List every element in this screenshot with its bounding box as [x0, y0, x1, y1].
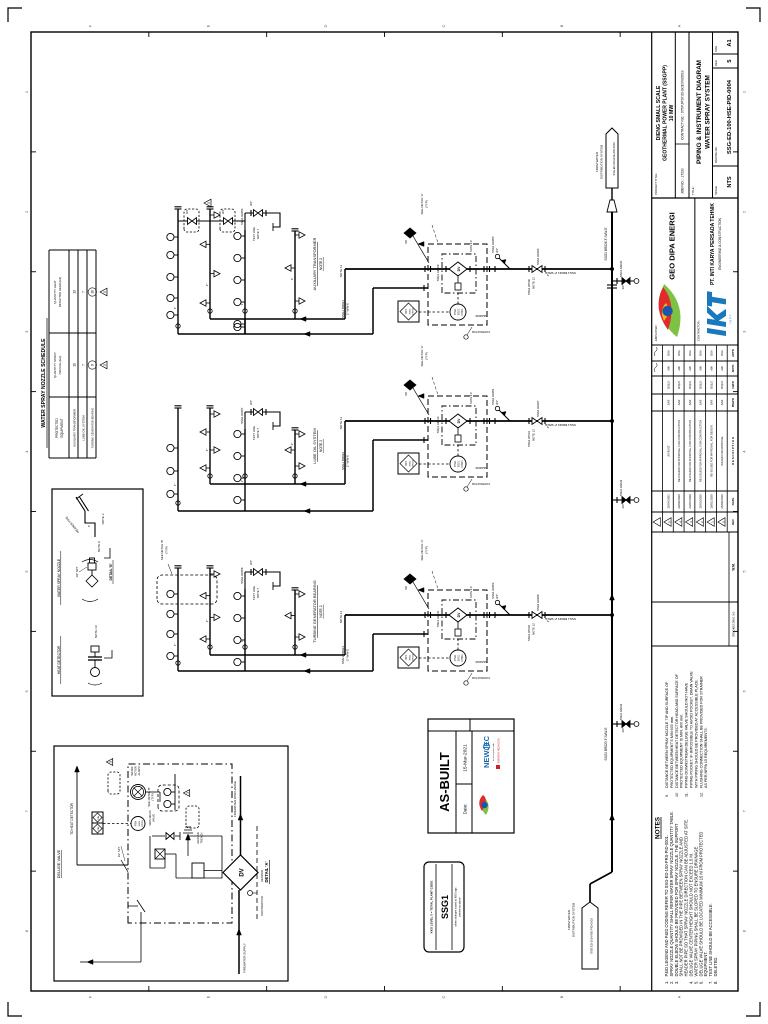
reference drawing columns: [652, 645, 738, 647]
svg-text:6.: 6.: [698, 981, 703, 984]
svg-text:CP031: CP031: [461, 654, 464, 662]
svg-text:2"-WW-E: 2"-WW-E: [346, 455, 350, 467]
svg-text:NOTE 12: NOTE 12: [532, 623, 536, 635]
svg-text:SSG1: SSG1: [410, 654, 412, 661]
svg-text:7: 7: [82, 291, 86, 293]
geo dipa energi logo: [660, 284, 680, 337]
svg-text:SSG1 BR020 3"-WW-E: SSG1 BR020 3"-WW-E: [604, 727, 608, 760]
svg-text:KKS LEVEL 0 = TOTAL PLANT CODE: KKS LEVEL 0 = TOTAL PLANT CODE: [430, 881, 434, 934]
svg-text:D E S C R I P T I O N: D E S C R I P T I O N: [731, 437, 735, 465]
svg-text:2": 2": [290, 614, 294, 617]
svg-text:CONTRACTOR: CONTRACTOR: [472, 676, 490, 680]
svg-text:PAL: PAL: [97, 815, 100, 820]
svg-text:3/4": 3/4": [621, 728, 625, 733]
lube oil system cluster test line: [244, 412, 246, 429]
svg-text:FIREWATER SUPPLY: FIREWATER SUPPLY: [243, 943, 247, 973]
lube oil system cluster skid boundary flanges: [424, 418, 426, 424]
spec break double tick: [607, 287, 617, 289]
svg-text:CP011: CP011: [461, 308, 464, 316]
svg-text:QUANTITY SPRAY: QUANTITY SPRAY: [53, 352, 57, 378]
lube oil system cluster deluge valve skid boundary: [428, 396, 487, 477]
svg-text:PROTECTED: PROTECTED: [55, 417, 59, 437]
svg-text:A: A: [677, 995, 682, 998]
svg-text:5: 5: [727, 59, 733, 62]
svg-text:SSG1 BR026 3"-WW-E: SSG1 BR026 3"-WW-E: [604, 227, 608, 260]
svg-text:SEE DETAIL 'A': SEE DETAIL 'A': [420, 539, 424, 560]
svg-text:SCALE: SCALE: [714, 186, 718, 195]
svg-text:RE-ISSUED FOR APPROVAL, FOR CO: RE-ISSUED FOR APPROVAL, FOR CONSTRUCTION: [688, 420, 692, 482]
svg-text:8: 8: [24, 929, 29, 932]
svg-text:DS|LS: DS|LS: [677, 381, 681, 389]
svg-text:8: 8: [91, 364, 95, 366]
vendor package dashed boundary (detail A): [128, 764, 232, 923]
svg-text:3/4": 3/4": [185, 209, 189, 214]
svg-text:PT. INTI KARYA PERSADA TEHNIK: PT. INTI KARYA PERSADA TEHNIK: [710, 203, 716, 285]
svg-text:SSG-ED-100-HSE-PID-0003: SSG-ED-100-HSE-PID-0003: [590, 918, 594, 954]
lube oil system cluster riser pipe: [345, 420, 612, 422]
svg-text:AS-BUILT: AS-BUILT: [666, 445, 670, 457]
svg-text:PAH: PAH: [405, 309, 408, 314]
turbine generator bearing cluster riser gate valve: [532, 612, 537, 619]
deluge valve DV diamond (detail A): [223, 855, 258, 890]
turbine generator bearing cluster skid boundary flanges: [424, 612, 426, 618]
svg-text:printed as above: printed as above: [458, 897, 462, 917]
employer cell: [694, 198, 696, 345]
svg-text:DISTANCE BETWEEN HEAT DETECTOR: DISTANCE BETWEEN HEAT DETECTOR HEAD AND …: [675, 673, 679, 788]
auxiliary transformer cluster heat detector solenoid diamond: [404, 228, 416, 238]
svg-text:(TYP): (TYP): [425, 546, 429, 554]
svg-text:when changes stated at KKS tag: when changes stated at KKS tags: [454, 887, 458, 927]
svg-text:SSG1: SSG1: [440, 895, 450, 919]
svg-text:PROTECTED EQUIPMENT'S MIN 600: PROTECTED EQUIPMENT'S MIN 600 mm.: [670, 716, 674, 788]
svg-text:VENDOR: VENDOR: [260, 870, 264, 882]
svg-text:(TYP): (TYP): [151, 793, 155, 800]
svg-text:VENDOR: VENDOR: [475, 314, 486, 318]
turbine generator bearing cluster riser pipe: [345, 614, 612, 616]
svg-text:12.: 12.: [699, 792, 703, 797]
reducer at right end: [607, 200, 617, 212]
svg-text:HEAT DETECTOR: HEAT DETECTOR: [57, 645, 61, 674]
svg-text:Date:: Date:: [463, 804, 468, 815]
svg-text:SAR: SAR: [699, 400, 703, 406]
svg-text:DSA: DSA: [699, 350, 703, 356]
lube oil system cluster spray header 1: [177, 408, 179, 511]
svg-text:SSG1 AA026: SSG1 AA026: [536, 248, 540, 265]
revision table: [652, 531, 738, 533]
svg-text:1: 1: [742, 90, 747, 93]
svg-text:I K P T: I K P T: [729, 314, 733, 323]
turbine generator bearing cluster header end elbows: [208, 645, 212, 649]
lube oil system cluster nozzles header 3: [234, 496, 245, 503]
svg-text:SSG1 AT000: SSG1 AT000: [527, 279, 531, 296]
lube oil system cluster strainer: [494, 418, 496, 424]
svg-text:5: 5: [103, 291, 107, 293]
svg-text:D: D: [323, 995, 328, 998]
svg-text:A1: A1: [727, 39, 733, 46]
water motor alarm: [131, 785, 146, 800]
svg-text:SAR: SAR: [720, 400, 724, 406]
extra nozzle header3 extension c1: [244, 319, 246, 334]
auxiliary transformer cluster heat detectors header 4: [295, 298, 305, 304]
svg-text:16: 16: [91, 290, 95, 294]
svg-text:E: E: [205, 24, 210, 27]
svg-text:7: 7: [24, 809, 29, 812]
corner trim marks: [8, 1002, 22, 1016]
svg-text:DV: DV: [457, 266, 461, 271]
auxiliary transformer cluster alarm square: [398, 301, 419, 322]
lube oil system cluster heat detectors header 4: [295, 463, 305, 469]
svg-text:6: 6: [742, 689, 747, 692]
auxiliary transformer cluster strainer: [494, 266, 496, 272]
svg-text:DSA: DSA: [709, 350, 713, 356]
svg-text:NOTE 7: NOTE 7: [256, 229, 260, 240]
svg-text:8.: 8.: [713, 981, 718, 984]
svg-text:3: 3: [186, 792, 190, 794]
svg-text:SSG1 AA034: SSG1 AA034: [619, 703, 623, 720]
svg-text:NOTE 4,6: NOTE 4,6: [469, 240, 473, 252]
svg-text:25/09/2019: 25/09/2019: [720, 494, 724, 509]
svg-text:SSG1 AA027: SSG1 AA027: [536, 400, 540, 417]
svg-text:SD: SD: [404, 392, 408, 396]
title strip top border: [651, 32, 653, 991]
svg-text:AW: AW: [666, 366, 670, 371]
svg-text:2"-WW-E: 2"-WW-E: [346, 303, 350, 315]
auxiliary transformer cluster pilot trim: [457, 276, 459, 283]
svg-text:2": 2": [205, 284, 209, 287]
svg-text:SSG1 BR022: SSG1 BR022: [341, 452, 345, 470]
nozzle pair see detail B (inside detail A): [158, 785, 179, 811]
svg-text:AW: AW: [709, 366, 713, 371]
svg-text:3/4": 3/4": [495, 248, 499, 253]
svg-text:2: 2: [700, 521, 704, 523]
svg-text:2": 2": [290, 278, 294, 281]
svg-text:FLUSHING CONNECTION SHALL BE P: FLUSHING CONNECTION SHALL BE PROVIDED FO…: [699, 676, 703, 788]
revision cloud + triangle (detail A) 1: [186, 806, 199, 828]
svg-text:DELETED.: DELETED.: [713, 956, 718, 976]
turbine generator bearing cluster pressure switch: [450, 650, 466, 666]
svg-text:GEOTHERMAL POWER PLANT (SSGPP): GEOTHERMAL POWER PLANT (SSGPP): [663, 65, 669, 161]
svg-text:29/09/2020: 29/09/2020: [677, 494, 681, 509]
svg-text:2": 2": [205, 449, 209, 452]
lube oil system cluster pilot trim: [457, 428, 459, 435]
svg-text:1: 1: [24, 90, 29, 93]
svg-text:15/04/2021: 15/04/2021: [666, 494, 670, 509]
svg-text:B: B: [559, 995, 564, 998]
svg-text:PSH: PSH: [134, 821, 138, 826]
svg-text:NOTE 11: NOTE 11: [339, 417, 343, 430]
svg-text:DISTRIBUTION SYSTEM: DISTRIBUTION SYSTEM: [600, 144, 604, 179]
turbine generator bearing cluster heat detectors header 2: [200, 636, 210, 642]
svg-text:DELUGE VALVE: DELUGE VALVE: [57, 849, 61, 878]
svg-text:3/4": 3/4": [621, 285, 625, 290]
svg-text:SSG1 BR021: SSG1 BR021: [341, 300, 345, 318]
svg-text:PSH: PSH: [453, 309, 457, 315]
svg-text:SSG1 BR023 2"-WW-E: SSG1 BR023 2"-WW-E: [545, 617, 576, 621]
svg-text:DETAIL 'A': DETAIL 'A': [264, 862, 269, 883]
svg-text:C: C: [441, 995, 446, 998]
svg-text:1": 1": [240, 303, 244, 306]
svg-text:FROM WATER: FROM WATER: [567, 909, 571, 930]
svg-text:PIPING POCKET, IF IMPOSSIBLE T: PIPING POCKET, IF IMPOSSIBLE TO AVOID PO…: [690, 671, 694, 788]
svg-text:DV: DV: [457, 612, 461, 617]
svg-text:DV: DV: [240, 868, 246, 876]
svg-text:CP021: CP021: [461, 460, 464, 468]
turbine generator bearing cluster heat detector solenoid diamond: [404, 574, 416, 584]
turbine generator bearing cluster spray header 2: [209, 568, 211, 655]
lube oil system cluster spray header 4: [294, 430, 296, 484]
svg-text:QUANTITY HEAT: QUANTITY HEAT: [53, 280, 57, 304]
svg-text:SIZE: SIZE: [714, 46, 718, 52]
svg-text:4: 4: [678, 521, 682, 523]
turbine generator bearing cluster spray header 3: [244, 589, 246, 671]
svg-text:NOTE 11: NOTE 11: [339, 611, 343, 624]
auxiliary transformer cluster collector risers: [210, 318, 345, 320]
svg-text:DSA: DSA: [720, 350, 724, 356]
svg-text:REV.: REV.: [714, 60, 718, 66]
svg-text:APP'D: APP'D: [732, 365, 735, 373]
lube oil system cluster nozzles header 1: [167, 490, 178, 497]
svg-text:CONTRACTOR: CONTRACTOR: [472, 330, 490, 334]
lube oil system cluster deluge valve: [449, 414, 467, 428]
svg-text:NOZZLE (EA): NOZZLE (EA): [58, 356, 62, 375]
svg-text:AUXILIARY TRANSFORMER: AUXILIARY TRANSFORMER: [73, 409, 77, 447]
svg-text:F: F: [87, 995, 92, 998]
svg-text:0: 0: [721, 521, 725, 523]
svg-text:DISTRIBUTION SYSTEM: DISTRIBUTION SYSTEM: [572, 902, 576, 937]
svg-text:NOTE 7: NOTE 7: [256, 428, 260, 439]
svg-text:CONTRACT NO. : 075/PJ/PST.00-: CONTRACT NO. : 075/PJ/PST.00-GDE/VIII/20…: [681, 70, 685, 140]
svg-text:AW: AW: [677, 366, 681, 371]
svg-text:in association with: in association with: [492, 742, 495, 761]
svg-text:WATER SPRAY NOZZLE SCHEDULE: WATER SPRAY NOZZLE SCHEDULE: [41, 338, 47, 428]
lube oil system cluster header end elbows: [208, 474, 212, 478]
svg-text:PROTECTED EQUIPMENT IS MIN. 80: PROTECTED EQUIPMENT IS MIN. 800 mm.: [680, 714, 684, 788]
svg-text:AS-BUILT: AS-BUILT: [437, 752, 452, 812]
svg-text:6: 6: [24, 689, 29, 692]
svg-text:SSG-ED-100-HSE-PID-0004: SSG-ED-100-HSE-PID-0004: [727, 79, 733, 154]
job and contract row: [675, 143, 689, 145]
svg-text:SAR: SAR: [677, 400, 681, 406]
svg-text:SAR: SAR: [688, 400, 692, 406]
svg-text:MAIN DRAIN: MAIN DRAIN: [148, 810, 152, 825]
typical detail box: [52, 489, 143, 696]
lube oil system cluster spray header 2: [209, 408, 211, 484]
alarm annunciator squares: [92, 823, 103, 834]
svg-text:NTS: NTS: [727, 176, 733, 187]
svg-text:CP031: CP031: [413, 653, 415, 660]
auxiliary transformer cluster header end elbows: [208, 309, 212, 313]
svg-text:1": 1": [173, 484, 177, 487]
svg-text:SSG1 UE009: SSG1 UE009: [436, 264, 440, 281]
svg-text:1/2" NPT: 1/2" NPT: [75, 566, 79, 578]
svg-text:5: 5: [667, 521, 671, 523]
svg-text:SSG1 AA028: SSG1 AA028: [536, 594, 540, 611]
svg-text:HEADER PIPE: HEADER PIPE: [64, 515, 80, 533]
svg-text:W.M.: W.M.: [732, 563, 736, 570]
svg-text:10/01/2020: 10/01/2020: [709, 494, 713, 509]
svg-text:SAR: SAR: [709, 400, 713, 406]
svg-text:3/4": 3/4": [249, 201, 253, 206]
svg-text:CP011: CP011: [413, 307, 415, 314]
auxiliary transformer cluster spray header 1: [177, 209, 179, 334]
svg-text:B: B: [559, 24, 564, 27]
auxiliary transformer cluster heat detectors header 2: [200, 300, 210, 306]
main water header pipe: [589, 884, 591, 902]
svg-text:SEE DETAIL 'A': SEE DETAIL 'A': [420, 193, 424, 214]
svg-text:RE-ISSUED FOR APPROVAL, FOR CO: RE-ISSUED FOR APPROVAL, FOR CONSTRUCTION: [699, 420, 703, 482]
svg-text:NOTE 9: NOTE 9: [97, 541, 101, 552]
svg-text:TO HEAT DETECTOR: TO HEAT DETECTOR: [70, 802, 74, 835]
svg-text:WITH PIPING SHOULD BE PROVIDED: WITH PIPING SHOULD BE PROVIDED AT ACCESS…: [694, 679, 698, 788]
lube oil system cluster spray header 3: [244, 429, 246, 511]
see detail B dashed box (c3): [157, 575, 217, 604]
svg-text:CP001: CP001: [142, 819, 144, 826]
svg-text:SSG1 AT001: SSG1 AT001: [527, 431, 531, 448]
auxiliary transformer cluster nozzles header 1: [167, 311, 178, 318]
svg-text:SSG1 BR023: SSG1 BR023: [341, 646, 345, 664]
svg-text:C: C: [87, 525, 91, 527]
svg-text:NOTE 12: NOTE 12: [532, 429, 536, 441]
svg-text:DS|LS: DS|LS: [666, 381, 670, 389]
svg-text:DIENG SMALL SCALE: DIENG SMALL SCALE: [656, 85, 662, 140]
main drain valve: [152, 835, 165, 837]
svg-text:DS|LS: DS|LS: [699, 381, 703, 389]
svg-text:SSG1 UE010: SSG1 UE010: [436, 416, 440, 433]
svg-text:ENGINEERING & CONSTRUCTION: ENGINEERING & CONSTRUCTION: [718, 217, 722, 270]
svg-text:PAH: PAH: [97, 826, 100, 831]
svg-text:SD: SD: [404, 586, 408, 590]
auxiliary transformer cluster spray header 3: [244, 230, 246, 334]
revision clouds with valves (c1): [178, 220, 245, 222]
turbine generator bearing cluster collector risers: [210, 654, 345, 656]
svg-text:NOTE 2: NOTE 2: [319, 440, 323, 452]
svg-text:SSG1 AA032: SSG1 AA032: [619, 260, 623, 277]
svg-text:2: 2: [742, 210, 747, 213]
svg-text:NOTE 3: NOTE 3: [101, 513, 105, 524]
pressure switch PSH (detail A): [103, 823, 131, 825]
main header drain valve SSG1 AA032: [612, 280, 622, 282]
ground / trench drain: [187, 839, 189, 856]
riser junction dots: [610, 267, 614, 271]
svg-text:WATER: WATER: [130, 766, 134, 775]
svg-text:KWARSA HEXAGON: KWARSA HEXAGON: [497, 738, 501, 763]
svg-text:SSG1 AA033: SSG1 AA033: [619, 479, 623, 496]
turbine generator bearing cluster deluge valve skid boundary: [428, 590, 487, 671]
auxiliary transformer cluster skid boundary flanges: [424, 266, 426, 272]
turbine generator bearing cluster heat detectors header 4: [295, 634, 305, 640]
main header drain valve SSG1 AA034: [612, 723, 622, 725]
turbine generator bearing cluster deluge valve: [449, 608, 467, 622]
svg-text:TURBINE GENERATOR BEARING: TURBINE GENERATOR BEARING: [312, 580, 317, 643]
svg-text:3: 3: [689, 521, 693, 523]
svg-text:NOTE 12: NOTE 12: [532, 277, 536, 289]
svg-text:7: 7: [82, 364, 86, 366]
auxiliary transformer cluster deluge valve: [449, 262, 467, 276]
svg-text:NOTE 4,6: NOTE 4,6: [469, 392, 473, 404]
turbine generator bearing cluster spray header 4: [294, 590, 296, 655]
svg-text:5: 5: [207, 202, 211, 204]
auxiliary transformer cluster pressure switch: [450, 304, 466, 320]
auxiliary transformer cluster deluge valve unit box: [442, 254, 476, 293]
svg-text:A: A: [677, 24, 682, 27]
svg-text:SSG-ED-100-HSE-PID-0003: SSG-ED-100-HSE-PID-0003: [612, 142, 616, 176]
svg-text:1: 1: [711, 521, 715, 523]
svg-text:LUBE OIL SYSTEM: LUBE OIL SYSTEM: [312, 428, 317, 463]
svg-text:(TYP): (TYP): [425, 352, 429, 360]
svg-text:DRWNG NO.: DRWNG NO.: [714, 146, 718, 163]
svg-text:(TYP): (TYP): [165, 546, 169, 554]
turbine generator bearing cluster nozzles header 3: [234, 658, 245, 665]
svg-text:SSG1 BR021 2"-WW-E: SSG1 BR021 2"-WW-E: [545, 271, 576, 275]
svg-text:3/4": 3/4": [221, 209, 225, 214]
revision triangle 5 (c1): [204, 199, 211, 207]
from water distribution flag (left): [582, 902, 598, 969]
lube oil system cluster riser gate valve: [532, 418, 537, 425]
auxiliary transformer cluster riser pipe: [345, 268, 612, 270]
turbine generator bearing cluster spray header 1: [177, 568, 179, 671]
svg-text:CHK'D: CHK'D: [732, 381, 735, 389]
svg-text:PREP'D: PREP'D: [732, 398, 735, 407]
from water distribution flag (right): [611, 188, 613, 200]
svg-text:PSH: PSH: [453, 461, 457, 467]
auxiliary transformer cluster spray header 2: [209, 209, 211, 319]
svg-text:SSG1: SSG1: [410, 460, 412, 467]
lube oil system cluster pressure switch: [450, 456, 466, 472]
svg-text:CP021: CP021: [413, 459, 415, 466]
svg-text:3.: 3.: [674, 981, 679, 984]
svg-text:4: 4: [742, 450, 747, 453]
svg-text:NOTE 2: NOTE 2: [319, 605, 323, 617]
IKPT logo: [707, 291, 726, 336]
auxiliary transformer cluster riser gate valve: [532, 266, 537, 273]
svg-text:4: 4: [24, 450, 29, 453]
svg-text:2": 2": [290, 443, 294, 446]
as-built stamp: [428, 719, 514, 833]
turbine generator bearing cluster strainer: [494, 612, 496, 618]
trim piping: [150, 836, 222, 878]
svg-text:11.: 11.: [685, 792, 689, 797]
svg-text:SAR: SAR: [666, 400, 670, 406]
main header drain valve SSG1 AA033: [612, 499, 622, 501]
KKS level stamp: [424, 862, 464, 952]
svg-text:AUXILIARY TRANSFORMER: AUXILIARY TRANSFORMER: [312, 238, 317, 291]
svg-text:3/4": 3/4": [249, 400, 253, 405]
svg-text:SSG1 AA056: SSG1 AA056: [240, 208, 244, 225]
lube oil system cluster heat detector solenoid diamond: [404, 380, 416, 390]
svg-text:3/4": 3/4": [621, 504, 625, 509]
revision triangle 5 (schedule): [100, 361, 107, 369]
pilot rectangle: [192, 863, 204, 878]
auxiliary transformer cluster spray header 4: [294, 231, 296, 319]
svg-text:DETAIL 'B': DETAIL 'B': [109, 563, 113, 580]
svg-text:1/2" NPT: 1/2" NPT: [117, 846, 121, 857]
svg-text:SSG1: SSG1: [410, 308, 412, 315]
svg-text:DSA: DSA: [677, 350, 681, 356]
svg-text:DS|LS: DS|LS: [688, 381, 692, 389]
turbine generator bearing cluster pilot trim: [457, 622, 459, 629]
svg-text:NOTE 10: NOTE 10: [94, 625, 98, 638]
svg-text:SSG1: SSG1: [139, 820, 141, 827]
svg-text:REV: REV: [731, 519, 735, 525]
svg-text:CONTRACTOR :: CONTRACTOR :: [697, 320, 701, 341]
svg-text:WATER SPRAY NOZZLE: WATER SPRAY NOZZLE: [57, 558, 61, 597]
auxiliary transformer cluster test line: [244, 213, 246, 230]
svg-text:PROJECT TITLE :: PROJECT TITLE :: [654, 172, 658, 195]
svg-text:CONTRACTOR: CONTRACTOR: [472, 482, 490, 486]
svg-text:9.: 9.: [665, 794, 669, 797]
svg-text:DS|LS: DS|LS: [720, 381, 724, 389]
svg-text:NOTE 4,6: NOTE 4,6: [469, 586, 473, 598]
